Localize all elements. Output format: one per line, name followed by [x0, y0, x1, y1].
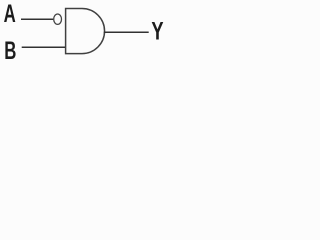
svg-text:Y: Y — [151, 17, 164, 45]
wire — [22, 46, 65, 48]
wire — [104, 31, 149, 33]
AND gate U1 — [66, 9, 105, 54]
inversion bubble on input A — [54, 14, 62, 24]
svg-text:B: B — [4, 38, 16, 65]
wire — [21, 18, 53, 20]
svg-text:A: A — [4, 1, 16, 28]
